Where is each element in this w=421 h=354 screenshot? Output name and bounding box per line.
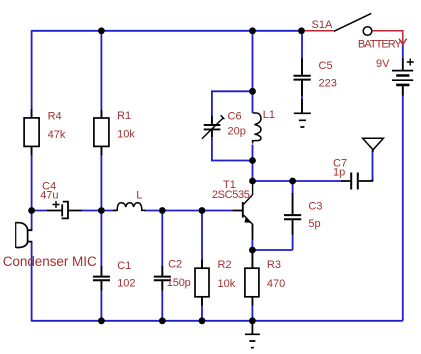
svg-text:R4: R4 (48, 111, 62, 123)
condenser microphone (16, 222, 32, 248)
label C2 (168, 259, 182, 271)
junction mid rail at R1 (98, 207, 105, 214)
label R2 (218, 259, 232, 271)
junction emitter node (249, 247, 256, 254)
wire battery top lead blue (402, 45, 404, 58)
wire R2 branch (201, 211, 203, 322)
label 9V (376, 58, 390, 70)
wire C2 branch (161, 211, 163, 322)
label C5 value 223 (319, 78, 337, 90)
wire emitter branch (251, 224, 253, 321)
svg-text:2SC535: 2SC535 (212, 189, 250, 201)
battery B1 (392, 58, 414, 96)
svg-text:47k: 47k (48, 129, 66, 141)
ground under R3 (245, 321, 260, 348)
capacitor C1 (93, 266, 110, 291)
label L1 (263, 109, 275, 121)
label S1A (312, 19, 333, 31)
label C7 value 1p (333, 167, 345, 179)
wire emitter to C3 bottom (252, 249, 292, 251)
svg-text:R2: R2 (218, 259, 232, 271)
capacitor C2 (154, 266, 171, 291)
wire antenna lead (372, 150, 374, 180)
resistor R2 (195, 260, 209, 306)
label C6 (228, 111, 242, 123)
svg-text:20p: 20p (228, 126, 246, 138)
svg-text:150p: 150p (167, 277, 191, 289)
label BATTERY (358, 39, 403, 51)
junction mid rail at mic (28, 207, 35, 214)
svg-text:C5: C5 (319, 60, 333, 72)
svg-text:C3: C3 (308, 201, 322, 213)
transistor T1 (232, 181, 252, 240)
junction tank top (249, 88, 256, 95)
switch S1A lever (334, 13, 371, 31)
junction tank bottom (249, 157, 256, 164)
svg-text:102: 102 (117, 278, 135, 290)
switch S1A contact circle (363, 27, 372, 36)
label C4 value 47u (40, 190, 58, 202)
capacitor C7 (341, 173, 373, 190)
junction collector node (249, 178, 256, 185)
svg-text:10k: 10k (117, 129, 135, 141)
junction mid rail at C2 (159, 207, 166, 214)
svg-text:L1: L1 (263, 109, 275, 121)
junction top bus at C5 (298, 27, 305, 34)
wire top bus (32, 30, 302, 32)
junction top bus at R1 (98, 27, 105, 34)
wire tank branch vertical (252, 31, 254, 181)
junction bottom bus at C1 (98, 317, 105, 324)
wire red net: circle to battery corner (372, 31, 403, 44)
svg-text:C6: C6 (228, 111, 242, 123)
label C1 (117, 260, 131, 272)
svg-text:C2: C2 (168, 259, 182, 271)
svg-text:1p: 1p (333, 167, 345, 179)
label R3 value 470 (267, 278, 285, 290)
label T1 (223, 179, 236, 191)
svg-text:Condenser MIC: Condenser MIC (3, 254, 97, 269)
wire C5 branch (301, 31, 303, 113)
svg-text:223: 223 (319, 78, 337, 90)
wire tank left loop (212, 91, 253, 160)
antenna (363, 138, 384, 152)
label R4 (48, 111, 62, 123)
label C4 (42, 181, 56, 193)
resistor R1 (94, 110, 109, 155)
label C5 (319, 60, 333, 72)
ground under C5 (294, 113, 311, 127)
svg-text:BATTERY: BATTERY (358, 39, 403, 51)
label R1 (117, 110, 131, 122)
svg-text:L: L (136, 190, 142, 202)
wire right bus (402, 86, 404, 321)
label R3 (267, 259, 281, 271)
svg-text:S1A: S1A (312, 19, 333, 31)
wire red net: switch feed (302, 30, 334, 32)
wire mid rail (32, 210, 233, 212)
svg-text:10k: 10k (218, 278, 236, 290)
label C2 value 150p (167, 277, 191, 289)
junction bottom bus at ground (249, 317, 256, 324)
junction mid rail at R2 (199, 207, 206, 214)
junction top bus at tank (249, 27, 256, 34)
capacitor C6 variable (202, 115, 225, 139)
capacitor C4 electrolytic (47, 201, 82, 218)
label C3 value 5p (308, 218, 320, 230)
junction C3 top (289, 178, 296, 185)
junction bottom bus at C2 (159, 317, 166, 324)
wire R1 branch (100, 31, 102, 321)
wire left bus middle (31, 146, 33, 230)
capacitor C5 (294, 58, 311, 113)
wire bottom bus (32, 320, 403, 322)
capacitor C3 (284, 193, 301, 235)
inductor L1 (253, 113, 261, 144)
label R4 value 47k (48, 129, 66, 141)
label R2 value 10k (218, 278, 236, 290)
label R1 value 10k (117, 129, 135, 141)
label Condenser MIC (3, 254, 97, 269)
junction bottom bus at R2 (199, 317, 206, 324)
label C7 (333, 158, 347, 170)
label L (136, 190, 142, 202)
wire left bus lower (31, 242, 33, 322)
label C1 value 102 (117, 278, 135, 290)
svg-text:470: 470 (267, 278, 285, 290)
inductor L (113, 203, 145, 211)
label C6 value 20p (228, 126, 246, 138)
svg-text:R3: R3 (267, 259, 281, 271)
svg-text:R1: R1 (117, 110, 131, 122)
svg-text:C1: C1 (117, 260, 131, 272)
wire C3 vertical (292, 181, 294, 250)
svg-text:9V: 9V (376, 58, 390, 70)
svg-text:5p: 5p (308, 218, 320, 230)
wire collector node horizontal (253, 180, 342, 182)
label C3 (308, 201, 322, 213)
wire left bus upper (31, 30, 33, 118)
battery net arrowhead (399, 39, 407, 45)
label T1 type 2SC535 (212, 189, 250, 201)
resistor R4 (24, 109, 39, 155)
resistor R3 (245, 252, 259, 306)
svg-text:47u: 47u (40, 190, 58, 202)
